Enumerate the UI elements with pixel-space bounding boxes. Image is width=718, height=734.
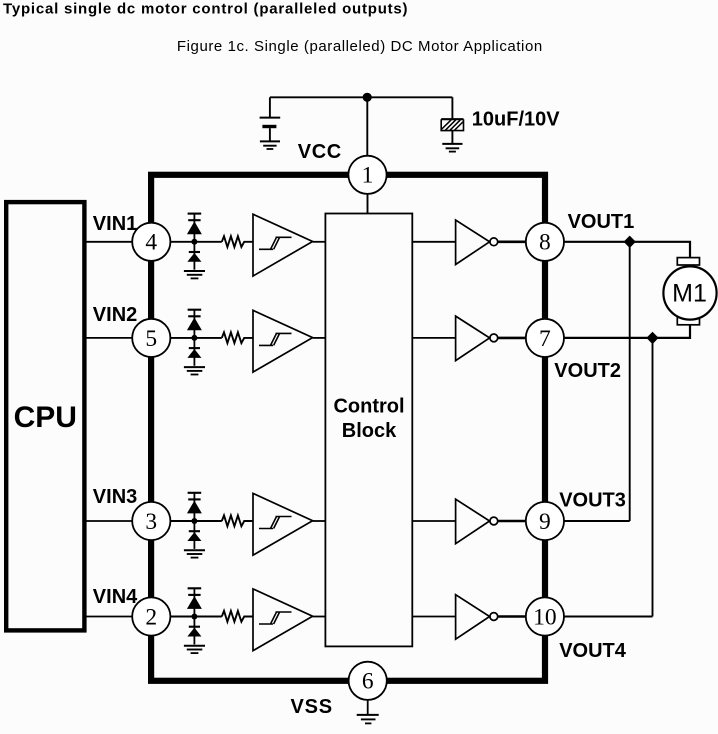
wire: pin 10 (VOUT4) to vertical [563, 616, 653, 618]
wire: CPU to pin 3 (VIN3) [85, 520, 152, 522]
diode clamp D7 (to supply bar) [188, 588, 202, 616]
diode clamp D4 (to ground) [188, 338, 200, 366]
pin 9 [526, 502, 564, 540]
wire: bubble to pin 8 [498, 241, 527, 244]
capacitor C1 (decoupling, left) [260, 97, 281, 140]
svg-text:8: 8 [539, 230, 551, 256]
pin 4 [132, 223, 170, 261]
resistor R1 (series input) [222, 236, 253, 247]
control block U1 [325, 214, 412, 647]
inverter B1 (output driver) [456, 220, 490, 265]
pin 10 [526, 597, 564, 635]
wire: schmitt A2 to control block [313, 337, 326, 339]
wire: control block to inverter B3 [412, 520, 455, 522]
svg-text:3: 3 [145, 509, 157, 535]
diode clamp D1 (to supply bar) [188, 214, 202, 242]
schmitt trigger buffer A4 [253, 589, 313, 651]
diode clamp D6 (to ground) [188, 521, 200, 549]
inverter B4 bubble [490, 613, 498, 621]
svg-text:VIN2: VIN2 [93, 304, 137, 326]
svg-text:M1: M1 [672, 280, 707, 308]
svg-text:VOUT1: VOUT1 [568, 211, 635, 233]
wire: pin 2 to clamp/resistor [170, 616, 222, 618]
inverter B1 bubble [490, 238, 498, 246]
diode clamp D2 (to ground) [188, 242, 200, 270]
ground (row 1 clamp) [184, 271, 205, 278]
svg-text:Control: Control [333, 396, 404, 418]
schmitt trigger buffer A3 [253, 493, 313, 555]
wire: CPU to pin 5 (VIN2) [85, 337, 152, 339]
svg-text:6: 6 [362, 669, 374, 695]
wire: CPU to pin 4 (VIN1) [85, 241, 152, 243]
svg-text:CPU: CPU [14, 401, 77, 434]
svg-text:VSS: VSS [291, 696, 333, 718]
schmitt trigger buffer A2 [253, 310, 313, 372]
wire: pin 9 (VOUT3) to vertical [563, 520, 630, 522]
schmitt trigger buffer A1 [253, 214, 313, 276]
wire: control block to inverter B1 [412, 241, 455, 243]
node: VCC junction dot [363, 93, 372, 102]
node: VOUT2/VOUT4 junction [646, 332, 658, 344]
ground (row 2 clamp) [184, 367, 205, 374]
svg-text:VOUT3: VOUT3 [559, 490, 626, 512]
IC outline (thick package border) [151, 175, 545, 681]
inverter B2 (output driver) [456, 316, 490, 361]
svg-text:VIN3: VIN3 [93, 486, 137, 508]
inverter B4 (output driver) [456, 595, 490, 640]
inverter B2 bubble [490, 334, 498, 342]
wire: pin 1 to control block [367, 190, 369, 214]
svg-text:10: 10 [533, 604, 557, 630]
svg-text:5: 5 [145, 326, 157, 352]
wire: schmitt A3 to control block [313, 520, 326, 522]
svg-text:1: 1 [362, 163, 374, 189]
pin 2 [132, 597, 170, 635]
node: input junction dot row 3 [191, 518, 197, 524]
svg-text:VOUT4: VOUT4 [559, 640, 627, 662]
svg-text:VCC: VCC [298, 141, 342, 163]
diode clamp D5 (to supply bar) [188, 493, 202, 521]
svg-text:2: 2 [145, 604, 157, 630]
wire: junction to pin 1 [366, 97, 368, 160]
resistor R4 (series input) [222, 611, 253, 622]
resistor R3 (series input) [222, 515, 253, 526]
pin 6 [349, 662, 387, 700]
svg-text:Figure 1c. Single (paralleled): Figure 1c. Single (paralleled) DC Motor … [177, 38, 543, 55]
wire: schmitt A4 to control block [313, 616, 326, 618]
node: input junction dot row 2 [191, 335, 197, 341]
motor M1 terminal cap (top) [677, 258, 699, 265]
diode clamp D3 (to supply bar) [188, 310, 202, 338]
ground (row 3 clamp) [184, 550, 205, 557]
svg-text:7: 7 [539, 326, 551, 352]
svg-text:4: 4 [145, 230, 157, 256]
wire: pin 4 to clamp/resistor [170, 241, 222, 243]
node: input junction dot row 1 [191, 239, 197, 245]
resistor R2 (series input) [222, 332, 253, 343]
ground (under pin 6 / VSS) [357, 700, 379, 724]
pin 3 [132, 502, 170, 540]
wire: pin 7 (VOUT2) to motor bottom [563, 325, 690, 338]
ground (under C2) [442, 144, 462, 152]
wire: bubble to pin 7 [498, 337, 527, 340]
wire: bubble to pin 9 [498, 520, 527, 523]
svg-text:Typical single dc motor contro: Typical single dc motor control (paralle… [3, 1, 408, 18]
wire: pin 5 to clamp/resistor [170, 337, 222, 339]
inverter B3 (output driver) [456, 499, 490, 544]
motor M1 terminal cap (bottom) [677, 317, 699, 325]
wire: VOUT1 junction down to pin 9 row [629, 242, 631, 521]
wire: bubble to pin 10 [498, 615, 527, 618]
capacitor C2 10uF/10V (polarized) [441, 97, 463, 143]
wire: CPU to pin 2 (VIN4) [85, 616, 152, 618]
diode clamp D8 (to ground) [188, 617, 200, 645]
CPU block [6, 202, 84, 630]
motor M1 [663, 266, 716, 319]
svg-text:10uF/10V: 10uF/10V [472, 109, 560, 131]
svg-text:9: 9 [539, 509, 551, 535]
wire: VOUT2 junction down to pin 10 row [652, 338, 654, 617]
wire: schmitt A1 to control block [313, 241, 326, 243]
svg-text:VIN1: VIN1 [93, 213, 137, 235]
pin 7 [526, 319, 564, 357]
wire: control block to inverter B4 [412, 616, 455, 618]
pin 5 [132, 319, 170, 357]
svg-text:VOUT2: VOUT2 [554, 360, 621, 382]
svg-text:VIN4: VIN4 [93, 586, 138, 608]
wire: control block to inverter B2 [412, 337, 455, 339]
node: VOUT1/VOUT3 junction [624, 236, 636, 248]
ground (row 4 clamp) [184, 646, 205, 653]
ground (under C1) [260, 141, 280, 149]
svg-text:Block: Block [342, 420, 397, 442]
node: input junction dot row 4 [191, 614, 197, 620]
wire: pin 8 (VOUT1) to motor top [563, 242, 690, 258]
wire: top supply rail [270, 96, 453, 98]
pin 1 [348, 156, 386, 194]
inverter B3 bubble [490, 517, 498, 525]
pin 8 [526, 223, 564, 261]
wire: pin 3 to clamp/resistor [170, 520, 222, 522]
